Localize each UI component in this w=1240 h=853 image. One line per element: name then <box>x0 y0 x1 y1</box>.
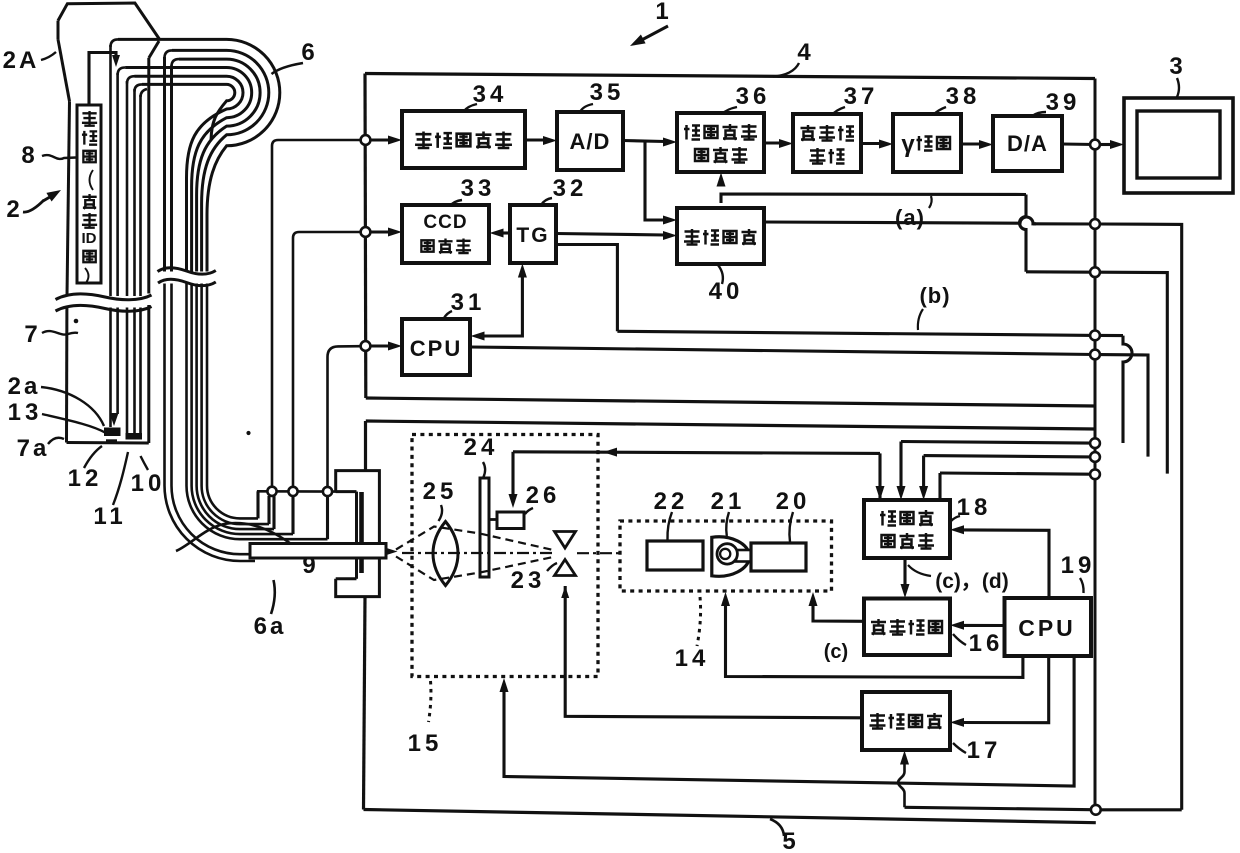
label 35 <box>590 79 625 106</box>
dashed box 14 <box>620 521 832 591</box>
label 24 <box>464 434 499 461</box>
wire: TG long route to bus junction <box>556 245 1132 444</box>
label 4 leader <box>773 63 799 77</box>
wire: left-edge junction to CPU 31 with arrow <box>361 341 402 351</box>
wire: contact to CPU row <box>328 346 361 487</box>
optical axis dashed rays <box>396 527 622 581</box>
block 39 D/A <box>993 116 1062 171</box>
label 23 <box>511 567 546 594</box>
block 18 illumination rate controller 照明率控制部 <box>864 500 950 558</box>
wire: CPU 31 / TG L-link with both arrowheads <box>471 264 527 341</box>
wire: sensor 23 to dimming 17 <box>565 586 862 718</box>
svg-text:33: 33 <box>461 175 496 202</box>
wire: TG to dimming circuit 40 arrow <box>556 231 677 240</box>
block 36 image signal processor 影像信号处理部 <box>677 113 764 172</box>
processor unit box 4 outline <box>365 74 1095 407</box>
label 21 leader <box>726 512 729 536</box>
label 16 <box>969 630 1004 657</box>
svg-text:1: 1 <box>655 0 672 25</box>
svg-text:25: 25 <box>423 478 458 505</box>
lamp block 20 <box>751 543 806 571</box>
memory box 8 存储部(镜体ID等) <box>77 105 101 284</box>
endoscope handle outline 2A <box>58 3 160 101</box>
svg-text:(c): (c) <box>824 641 848 663</box>
CCD block 13 <box>104 428 121 437</box>
svg-text:6a: 6a <box>254 613 287 640</box>
svg-text:12: 12 <box>68 465 103 492</box>
label 2 <box>6 196 23 223</box>
label 17 leader <box>953 743 966 753</box>
label 14 <box>675 645 710 672</box>
svg-text:6: 6 <box>301 39 318 66</box>
break wavy on universal cord <box>158 268 216 286</box>
label 4 <box>797 39 814 66</box>
svg-text:13: 13 <box>8 399 43 426</box>
svg-text:D/A: D/A <box>1007 131 1048 156</box>
label 16 leader <box>953 634 966 645</box>
signal line pair in scope <box>111 45 118 427</box>
light source box 5 top edge <box>366 421 1095 429</box>
label 17 <box>967 737 1002 764</box>
block 19 CPU <box>1005 598 1092 656</box>
label 39 leader <box>1032 112 1046 116</box>
light exit arrow at guide tip <box>387 548 398 555</box>
label 26 <box>526 482 561 509</box>
block 38 gamma correction γ校正 <box>893 114 961 172</box>
svg-text:19: 19 <box>1061 552 1096 579</box>
label 7 <box>24 321 41 348</box>
label 6a leader <box>271 580 275 614</box>
label 7 leader <box>42 331 78 335</box>
label 6a <box>254 613 287 640</box>
wire: CPU 19 pin to dimming 17 arrow <box>950 656 1049 727</box>
light guide end block 11 <box>126 433 143 440</box>
svg-text:37: 37 <box>844 83 879 110</box>
label 23 leader <box>547 563 557 571</box>
svg-text:38: 38 <box>946 83 981 110</box>
wire: block 38 to 39 arrow <box>961 140 993 149</box>
label 6 <box>301 39 318 66</box>
label (c),(d) <box>935 570 1008 593</box>
label 8 <box>21 142 38 169</box>
insertion tube right edge <box>147 58 150 443</box>
svg-text:17: 17 <box>967 737 1002 764</box>
half mirror triangle pair 23 <box>555 532 576 576</box>
memory box 8 pointer to signal line <box>89 53 120 106</box>
arrow for label 2 <box>23 190 61 212</box>
svg-text:23: 23 <box>511 567 546 594</box>
label (c)(d) leader tick <box>908 565 931 576</box>
label 18 <box>957 494 992 521</box>
svg-text:31: 31 <box>451 289 486 316</box>
svg-text:2A: 2A <box>3 47 40 74</box>
light guide lines in scope <box>127 81 141 433</box>
svg-text:11: 11 <box>93 503 126 530</box>
label 33 leader <box>450 200 462 206</box>
label 38 leader <box>933 107 946 115</box>
label 21 <box>711 488 746 515</box>
svg-text:4: 4 <box>797 39 814 66</box>
universal cord 9 descent and bend <box>164 284 327 562</box>
lamp block 22 <box>647 541 703 570</box>
speck dot <box>74 319 251 435</box>
label 34 leader <box>464 104 477 111</box>
svg-text:3: 3 <box>1169 53 1186 80</box>
block 35 A/D <box>557 112 623 170</box>
dashed box 15 <box>412 435 598 677</box>
label 20 <box>776 488 811 515</box>
svg-text:36: 36 <box>736 83 771 110</box>
svg-text:24: 24 <box>464 434 499 461</box>
svg-text:TG: TG <box>516 224 549 247</box>
cord loop top-left corner curves <box>111 39 180 97</box>
label 40 <box>709 278 744 305</box>
svg-text:15: 15 <box>408 730 443 757</box>
svg-text:A/D: A/D <box>570 129 611 154</box>
label 35 leader <box>580 104 593 112</box>
wire: CPU 19 pin to optics box 15 arrow with squiggle branch <box>500 656 1075 786</box>
wire: block 35 to 36 arrow with tap junction <box>623 138 677 147</box>
label 26 leader <box>525 508 533 514</box>
label 34 <box>473 81 508 108</box>
leader 10 <box>141 456 149 470</box>
wire: sensor 26 net from controller 18 to lens box with arrows <box>509 448 885 508</box>
svg-text:35: 35 <box>590 79 625 106</box>
light source box 5 left edge lower <box>364 597 366 810</box>
label 1 <box>655 0 672 25</box>
lamp 21 reflector and bulb <box>712 537 752 576</box>
svg-text:40: 40 <box>709 278 744 305</box>
label 14 dashed leader <box>697 597 701 646</box>
block 40 dimming circuit 调光电路 <box>677 208 764 264</box>
svg-text:21: 21 <box>711 488 746 515</box>
label 38 <box>946 83 981 110</box>
svg-text:CPU: CPU <box>1018 615 1076 641</box>
labels 2a 13 7a 12 11 10 <box>8 373 166 530</box>
label 37 leader <box>832 107 845 115</box>
label 6 leader <box>272 63 304 74</box>
wire: left-edge junction to block 33 with arrow <box>361 227 402 237</box>
label 5 leader <box>770 819 784 836</box>
label 32 <box>553 175 588 202</box>
label 36 leader <box>722 107 737 114</box>
wire: CPU 19 to controller 18 arrow <box>950 525 1049 598</box>
label 40 leader <box>718 265 723 284</box>
contact circle 10 <box>323 487 332 496</box>
svg-text:5: 5 <box>782 828 799 853</box>
label 32 leader <box>541 198 552 205</box>
wire: A/D tap down to dimming circuit 40 arrow <box>645 141 677 225</box>
block 31 CPU <box>402 319 470 375</box>
wire: contact to block 33 row <box>293 232 360 487</box>
leader 13 <box>42 414 106 433</box>
cord sheath verticals <box>165 57 172 272</box>
wire: contact to block 34 row <box>272 140 360 487</box>
wire: block 37 to 38 arrow <box>861 140 893 149</box>
universal cord 6 loop lines <box>118 39 280 271</box>
arrow into CCD <box>110 413 119 426</box>
label 31 <box>451 289 486 316</box>
svg-text:16: 16 <box>969 630 1004 657</box>
label 9 <box>302 552 319 579</box>
svg-text:(b): (b) <box>919 283 950 308</box>
wire: bus junction row 1 (from TG route) to controller 18 arrow <box>897 438 1100 500</box>
svg-text:8: 8 <box>21 142 38 169</box>
svg-text:32: 32 <box>553 175 588 202</box>
label 37 <box>844 83 879 110</box>
filter plate 24 <box>480 478 489 577</box>
wire: block 34 to 35 arrow <box>525 136 557 145</box>
insertion tube 7 left edge <box>67 101 70 442</box>
svg-text:(a): (a) <box>895 205 925 230</box>
sensor box 26 <box>489 512 524 529</box>
label (c) <box>824 641 848 663</box>
leader 7a <box>48 438 64 444</box>
wire: bus junction row 3 (from loop a) into controller 18 <box>940 469 1100 500</box>
label 31 leader <box>444 311 452 318</box>
label 19 <box>1061 552 1096 579</box>
block 33 CCD driver CCD驱动器 <box>402 205 489 263</box>
contact circle 12 <box>267 487 276 496</box>
wire: controller 18 to lamp controller 16 arrow <box>901 558 910 598</box>
label 5 <box>782 828 799 853</box>
wire: dimming 40 output long route down right side <box>764 217 1182 810</box>
leader 2a <box>41 387 104 426</box>
connector bracket bottom <box>336 558 380 597</box>
label 25 <box>423 478 458 505</box>
wire: CPU 19 to lamp controller 16 arrow <box>950 621 1005 630</box>
wire: bottom bus link to squiggle branch <box>905 807 1092 809</box>
svg-text:39: 39 <box>1046 89 1081 116</box>
label 15 <box>408 730 443 757</box>
block 32 TG <box>510 205 556 263</box>
break wavy on insertion tube <box>56 294 152 311</box>
wire: left-edge junction to block 34 with arrow <box>361 135 402 145</box>
block 34 pre-processing circuit 预处理电路 <box>402 111 525 168</box>
block 16 lamp controller 灯控制部 <box>864 599 950 656</box>
leader 11 <box>113 452 128 505</box>
connector bracket top <box>336 471 380 544</box>
svg-text:CPU: CPU <box>410 336 462 361</box>
light guide ferrule bar <box>250 544 386 559</box>
label (a) <box>895 205 925 230</box>
label 15 dashed leader <box>429 681 431 722</box>
svg-text:10: 10 <box>131 470 166 497</box>
svg-text:7a: 7a <box>17 435 50 462</box>
label 2A leader <box>41 52 56 60</box>
svg-text:18: 18 <box>957 494 992 521</box>
svg-text:(c)，(d): (c)，(d) <box>935 570 1008 593</box>
svg-text:26: 26 <box>526 482 561 509</box>
svg-text:7: 7 <box>24 321 41 348</box>
label (b) <box>919 283 950 308</box>
lens 25 <box>433 522 458 586</box>
wire: bottom bus junction <box>1091 805 1101 815</box>
contact pad 12 <box>106 439 117 444</box>
contact circle 11 <box>288 487 297 496</box>
contact line <box>257 490 336 493</box>
wire: feedback loop (a) into block 36 bottom <box>717 173 1168 474</box>
svg-text:γ: γ <box>901 131 915 158</box>
label 9 leader <box>176 523 306 556</box>
cord wires up to connector contacts <box>258 491 328 539</box>
label (b) leader tick <box>918 309 923 330</box>
label 19 leader <box>1080 578 1084 593</box>
label 22 <box>654 488 689 515</box>
label 24 leader <box>483 462 485 477</box>
light source box 5 left edge upper <box>364 421 367 471</box>
svg-text:2: 2 <box>6 196 23 223</box>
monitor 3 <box>1124 98 1233 193</box>
wire: CPU 19 pin to lamp box 14 arrow <box>721 592 1023 677</box>
wire: bus junction row 2 (from CPU route) to controller 18 arrow <box>919 452 1100 500</box>
block 17 dimming circuit 调光电路 <box>862 692 950 750</box>
wire: CPU 31 long route to bus junction <box>470 347 1148 457</box>
svg-text:22: 22 <box>654 488 689 515</box>
label 20 leader <box>789 512 793 542</box>
label 39 <box>1046 89 1081 116</box>
label 3 <box>1169 53 1186 80</box>
svg-text:2a: 2a <box>8 373 41 400</box>
vertical bus / right edge of box 4 and box 5 <box>1094 79 1097 811</box>
arrow into triangle 23 <box>561 586 569 598</box>
leader 12 <box>84 446 102 468</box>
wire: squiggle branch up into dimming 17 bottom <box>898 751 909 808</box>
light source box 5 bottom edge <box>364 810 1096 823</box>
arrow for label 1 <box>630 26 668 46</box>
wire: TG to CCD driver 33 arrow <box>490 229 511 238</box>
svg-text:20: 20 <box>776 488 811 515</box>
label 2A <box>3 47 40 74</box>
svg-text:ID: ID <box>82 230 97 247</box>
wire: block 39 to monitor with junction on bus <box>1062 140 1124 150</box>
label 22 leader <box>667 512 672 540</box>
label 33 <box>461 175 496 202</box>
wire: block 36 to 37 arrow <box>764 139 793 148</box>
label 36 <box>736 83 771 110</box>
svg-text:14: 14 <box>675 645 710 672</box>
svg-text:CCD: CCD <box>423 212 467 233</box>
label 3 leader <box>1177 78 1179 97</box>
label 18 leader <box>951 516 960 521</box>
label 8 leader <box>42 155 76 159</box>
scope distal end edge <box>67 441 149 445</box>
label (a) leader tick <box>929 196 932 208</box>
wire: lamp controller 16 to lamp box 14 arrow <box>809 592 865 621</box>
block 37 synchronization circuit 同时化电路 <box>793 114 861 172</box>
svg-text:34: 34 <box>473 81 508 108</box>
label 25 leader <box>439 505 443 521</box>
